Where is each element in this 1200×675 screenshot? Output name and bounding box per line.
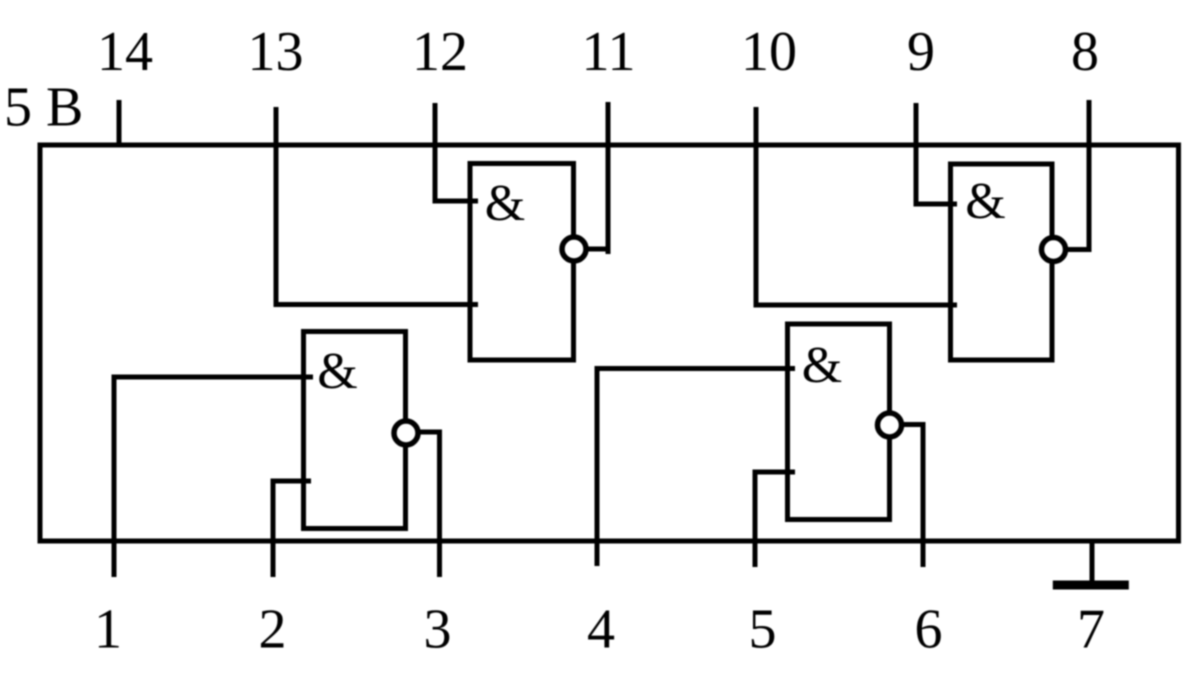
NAND gate U1 body [470,164,574,361]
NAND gate U2 body [304,332,406,529]
wire pin 6 from gate U3 output [890,425,924,568]
svg-text:6: 6 [915,599,943,661]
svg-text:&: & [965,173,1005,230]
inversion bubble U3 output [878,413,902,437]
svg-text:&: & [802,337,842,394]
svg-text:1: 1 [94,599,122,661]
wire pin 2 to gate U2 input B [273,481,311,577]
svg-text:5: 5 [749,599,777,661]
svg-text:10: 10 [741,21,797,83]
svg-text:11: 11 [582,21,636,83]
wire pin 14 Vcc stub [117,100,122,145]
inversion bubble U4 output [1042,238,1066,262]
NAND gate U4 body [951,164,1053,360]
svg-text:8: 8 [1071,21,1099,83]
inversion bubble U1 output [562,237,586,261]
IC package outline DD1 [40,145,1179,541]
svg-text:&: & [485,175,525,232]
svg-text:12: 12 [412,21,468,83]
wire pin 9 to gate U4 input A [916,103,957,204]
svg-text:7: 7 [1077,599,1105,661]
wire pin 10 to gate U4 input B [756,107,957,305]
wire pin 11 from gate U1 output [574,102,608,254]
ground symbol bar [1053,581,1129,590]
wire pin 1 to gate U2 input A [114,377,313,577]
svg-text:2: 2 [259,599,287,661]
wire pin 3 from gate U2 output [406,432,440,577]
svg-text:4: 4 [587,599,615,661]
wire pin 7 to ground [1090,541,1095,581]
NAND gate U3 body [788,324,890,520]
svg-text:&: & [317,343,357,400]
svg-text:5 В: 5 В [4,77,83,139]
svg-text:13: 13 [248,21,304,83]
inversion bubble U2 output [394,421,418,445]
svg-text:9: 9 [907,21,935,83]
wire pin 5 to gate U3 input B [755,472,795,567]
wire pin 4 to gate U3 input A [597,369,795,567]
wire pin 8 from gate U4 output [1054,100,1090,250]
svg-text:3: 3 [424,599,452,661]
wire pin 13 to gate U1 input B [276,107,478,305]
svg-text:14: 14 [97,21,153,83]
wire pin 12 to gate U1 input A [435,103,478,201]
